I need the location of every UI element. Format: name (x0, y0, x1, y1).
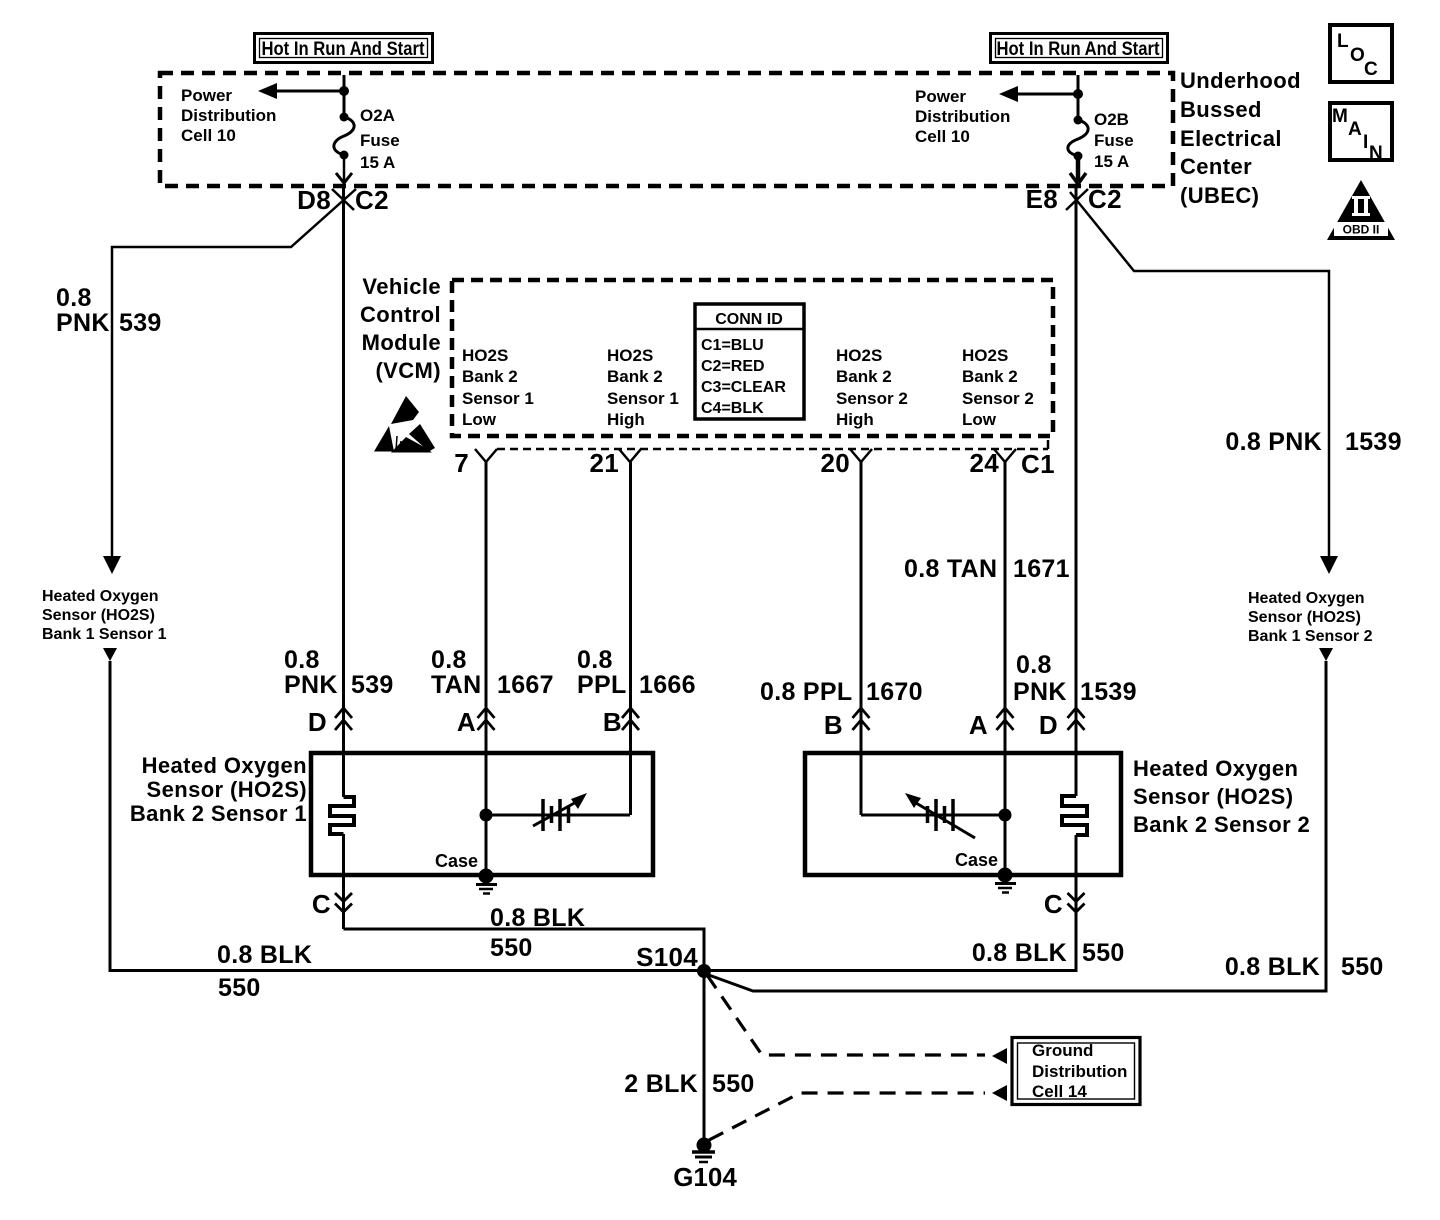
svg-text:HO2S: HO2S (462, 346, 508, 365)
svg-text:Sensor 1: Sensor 1 (462, 389, 534, 408)
svg-text:C3=CLEAR: C3=CLEAR (701, 379, 786, 396)
case ground right (995, 868, 1016, 893)
wire label 0.8 PNK 539 (at sensor D left) (284, 646, 394, 699)
svg-text:M: M (1332, 106, 1348, 127)
svg-text:Cell 10: Cell 10 (181, 126, 236, 145)
dashed reference from S104 to Ground Distribution (707, 975, 1007, 1064)
connector crossing symbol at D8/C2 (332, 189, 354, 210)
connector crossing symbol at E8/C2 (1066, 189, 1088, 210)
svg-text:High: High (836, 410, 874, 429)
svg-text:15 A: 15 A (1094, 152, 1129, 171)
svg-text:Underhood: Underhood (1180, 68, 1301, 93)
text HO2S Bank 2 Sensor 1 Low (462, 346, 534, 429)
ground G104 (673, 1138, 737, 1193)
svg-text:539: 539 (119, 309, 162, 337)
svg-text:Heated Oxygen: Heated Oxygen (1248, 590, 1364, 607)
svg-text:PNK: PNK (1013, 678, 1067, 706)
svg-text:HO2S: HO2S (962, 346, 1008, 365)
pin 7 fork (475, 449, 497, 462)
svg-text:Bank 2: Bank 2 (836, 367, 892, 386)
node junction dot left (339, 86, 349, 96)
connector chevrons C left (335, 893, 352, 912)
svg-text:0.8 PPL: 0.8 PPL (760, 678, 852, 706)
svg-text:D: D (308, 707, 327, 737)
text Heated Oxygen Sensor (HO2S) Bank 2 Sensor 2 (1133, 756, 1310, 837)
svg-text:550: 550 (712, 1070, 755, 1098)
svg-text:HO2S: HO2S (836, 346, 882, 365)
splice S104 (636, 942, 711, 978)
wire label 0.8 PNK 1539 (at sensor D right) (1013, 651, 1137, 706)
wire heater to case exit left (342, 834, 345, 929)
node junction dot A left (480, 809, 493, 822)
svg-text:C2: C2 (355, 185, 389, 215)
svg-text:1666: 1666 (639, 671, 696, 699)
svg-text:C2=RED: C2=RED (701, 358, 765, 375)
svg-text:High: High (607, 410, 645, 429)
svg-text:Heated Oxygen: Heated Oxygen (42, 588, 158, 605)
wire PPL 1666 pin21 to sensor B (left column) (629, 462, 632, 815)
label box Ground Distribution Cell 14 (1012, 1038, 1140, 1105)
svg-text:0.8 TAN: 0.8 TAN (904, 555, 997, 583)
svg-text:1539: 1539 (1080, 678, 1137, 706)
pin 24 fork (994, 449, 1016, 462)
svg-text:Heated Oxygen: Heated Oxygen (142, 753, 307, 778)
svg-text:Module: Module (362, 330, 441, 355)
svg-text:C: C (1044, 889, 1063, 919)
text Heated Oxygen Sensor HO2S Bank 1 Sensor 1 (42, 588, 167, 643)
wire TAN 1671 pin24 to sensor A (right column) (1004, 462, 1007, 874)
heater element left (330, 797, 354, 834)
pin 21 fork (619, 449, 641, 462)
svg-text:B: B (603, 707, 622, 737)
svg-text:Sensor 2: Sensor 2 (836, 389, 908, 408)
wire label 0.8 PNK 539 (upper left) (56, 284, 162, 337)
svg-text:550: 550 (218, 974, 261, 1002)
wire PNK 539 from C2 to sensor D (left column) (342, 186, 345, 797)
svg-text:OBD II: OBD II (1343, 223, 1380, 237)
svg-text:PNK: PNK (284, 671, 338, 699)
variable sense element right (battery with arrow) (861, 793, 1005, 838)
svg-text:550: 550 (1082, 939, 1125, 967)
wire label 0.8 TAN 1671 (904, 555, 1070, 583)
svg-text:C1=BLU: C1=BLU (701, 337, 764, 354)
VCM dashed box (452, 280, 1053, 436)
fuse O2B 15A (1068, 110, 1134, 171)
label box "Hot In Run And Start" right (991, 34, 1168, 63)
connector chevrons B left (622, 708, 639, 730)
svg-text:21: 21 (589, 448, 619, 478)
svg-text:O: O (1350, 45, 1365, 66)
svg-text:C2: C2 (1088, 184, 1122, 214)
fuse O2A 15A (334, 106, 400, 172)
connector chevrons A right (997, 708, 1014, 730)
svg-text:0.8: 0.8 (284, 646, 320, 674)
svg-text:Cell 10: Cell 10 (915, 127, 970, 146)
svg-text:0.8: 0.8 (577, 646, 613, 674)
svg-text:Bank 2: Bank 2 (462, 367, 518, 386)
variable sense element left (battery with arrow) (486, 793, 630, 831)
text Power Distribution Cell 10 (right) (915, 87, 1010, 146)
svg-text:550: 550 (1341, 953, 1384, 981)
wire from Hot In Run box down (left) (343, 75, 346, 117)
VCM connector C1 dashed edge (497, 440, 1048, 449)
wire PNK 1539 branch to HO2S Bank1 Sensor2 (right) (1070, 192, 1338, 574)
svg-text:D8: D8 (297, 185, 331, 215)
svg-text:C: C (312, 889, 331, 919)
wire label 0.8 TAN 1667 (431, 646, 554, 699)
svg-text:O2B: O2B (1094, 110, 1129, 129)
text HO2S Bank 2 Sensor 1 High (607, 346, 679, 429)
text Heated Oxygen Sensor HO2S Bank 1 Sensor 2 (1248, 590, 1373, 645)
dashed box UBEC (Underhood Bussed Electrical Center) (160, 73, 1173, 186)
svg-text:Bank 2 Sensor 2: Bank 2 Sensor 2 (1133, 812, 1310, 837)
svg-text:Distribution: Distribution (915, 107, 1010, 126)
svg-text:Power: Power (915, 87, 966, 106)
svg-text:Sensor (HO2S): Sensor (HO2S) (42, 607, 155, 624)
svg-text:0.8: 0.8 (56, 284, 92, 312)
svg-text:O2A: O2A (360, 106, 395, 125)
svg-text:Case: Case (955, 850, 998, 870)
connector chevrons D left (335, 708, 352, 730)
wire arrow below fuse O2A (336, 155, 352, 183)
text Underhood Bussed Electrical Center (UBEC) (1180, 68, 1301, 208)
svg-text:D: D (1039, 710, 1058, 740)
connector chevrons C right (1068, 893, 1085, 912)
svg-text:Ground: Ground (1032, 1041, 1093, 1060)
svg-text:Low: Low (962, 410, 997, 429)
wire label 0.8 PPL 1670 (760, 678, 923, 706)
svg-text:A: A (457, 707, 476, 737)
wire label 0.8 BLK 550 (right C) (972, 939, 1125, 967)
svg-text:(VCM): (VCM) (375, 358, 441, 383)
text Power Distribution Cell 10 (left) (181, 86, 276, 145)
svg-text:Sensor (HO2S): Sensor (HO2S) (1133, 784, 1293, 809)
svg-text:Fuse: Fuse (1094, 131, 1134, 150)
wire arrow to Power Distribution left (258, 83, 344, 99)
wire BLK 550 main splice run (110, 969, 1076, 972)
svg-text:Sensor (HO2S): Sensor (HO2S) (147, 777, 307, 802)
wire label 2 BLK 550 (624, 1070, 754, 1098)
svg-text:Fuse: Fuse (360, 131, 400, 150)
svg-text:E8: E8 (1026, 184, 1058, 214)
label box "Hot In Run And Start" left (255, 34, 433, 63)
svg-text:Center: Center (1180, 154, 1252, 179)
wire label 0.8 BLK 550 (far left) (217, 941, 312, 1002)
text Heated Oxygen Sensor (HO2S) Bank 2 Sensor 1 (130, 753, 307, 826)
wire PNK 1539 from C2 to sensor D (right column) (1075, 186, 1078, 796)
svg-text:20: 20 (820, 448, 850, 478)
svg-text:Control: Control (360, 302, 441, 327)
case ground left (476, 869, 497, 894)
svg-text:Power: Power (181, 86, 232, 105)
svg-text:Hot In Run And Start: Hot In Run And Start (262, 39, 426, 60)
svg-text:Bank 2 Sensor 1: Bank 2 Sensor 1 (130, 801, 307, 826)
HO2S Bank 2 Sensor 1 box (311, 753, 653, 875)
wire PNK 539 branch to HO2S Bank1 Sensor1 (left) (103, 189, 356, 574)
CONN ID table (695, 304, 804, 419)
connector label D8 C2 (297, 185, 389, 215)
svg-text:Bussed: Bussed (1180, 97, 1262, 122)
svg-text:Sensor 2: Sensor 2 (962, 389, 1034, 408)
svg-text:1539: 1539 (1345, 428, 1402, 456)
svg-text:PPL: PPL (577, 671, 627, 699)
svg-text:0.8 BLK: 0.8 BLK (1225, 953, 1320, 981)
node junction dot right (1073, 89, 1083, 99)
connector chevrons A left (478, 708, 495, 730)
svg-text:0.8 BLK: 0.8 BLK (490, 904, 585, 932)
svg-text:15 A: 15 A (360, 153, 395, 172)
HO2S Bank 2 Sensor 2 box (805, 753, 1121, 875)
svg-text:0.8 BLK: 0.8 BLK (217, 941, 312, 969)
svg-text:1671: 1671 (1013, 555, 1070, 583)
svg-text:7: 7 (454, 448, 469, 478)
ESD sensitive device symbol (374, 396, 435, 453)
icon OBD II triangle (1327, 180, 1395, 240)
text HO2S Bank 2 Sensor 2 Low (962, 346, 1034, 429)
svg-text:C1: C1 (1021, 449, 1055, 479)
svg-text:L: L (1337, 31, 1349, 52)
wire from Hot In Run box down (right) (1077, 75, 1080, 120)
wire label 0.8 PPL 1666 (577, 646, 696, 699)
wire BLK 550 from HO2S Bank1 Sensor1 down-left (103, 648, 704, 971)
connector chevrons D right (1068, 708, 1085, 730)
wire arrow below fuse O2B (1070, 156, 1086, 184)
svg-text:C4=BLK: C4=BLK (701, 400, 764, 417)
svg-text:0.8: 0.8 (1016, 651, 1052, 679)
wire BLK 550 from HO2S Bank1 Sensor2 down-right (706, 648, 1333, 991)
svg-text:2 BLK: 2 BLK (624, 1070, 698, 1098)
svg-text:539: 539 (351, 671, 394, 699)
wire PPL 1670 pin20 to sensor B (right column) (860, 462, 863, 815)
svg-text:TAN: TAN (431, 671, 481, 699)
svg-text:0.8: 0.8 (431, 646, 467, 674)
pin 20 fork (850, 449, 872, 462)
svg-text:Distribution: Distribution (181, 106, 276, 125)
heater element right (1062, 796, 1087, 835)
node junction dot A right (999, 809, 1012, 822)
svg-text:1670: 1670 (866, 678, 923, 706)
svg-text:Bank 2: Bank 2 (962, 367, 1018, 386)
svg-text:A: A (1348, 119, 1362, 140)
svg-text:B: B (824, 710, 843, 740)
icon MAIN (1330, 103, 1392, 164)
svg-text:PNK: PNK (56, 309, 110, 337)
text Vehicle Control Module (VCM) (360, 274, 441, 383)
svg-text:0.8 BLK: 0.8 BLK (972, 939, 1067, 967)
svg-text:N: N (1369, 143, 1383, 164)
wire 2 BLK 550 to ground (703, 971, 706, 1140)
svg-text:Bank 2: Bank 2 (607, 367, 663, 386)
svg-text:Vehicle: Vehicle (362, 274, 441, 299)
svg-text:Case: Case (435, 851, 478, 871)
dashed reference from G104 to Ground Distribution (709, 1085, 1007, 1140)
svg-text:CONN ID: CONN ID (715, 311, 783, 328)
svg-text:I: I (1363, 132, 1368, 153)
wire label 0.8 PNK 1539 (upper right) (1225, 428, 1401, 456)
svg-text:Bank 1 Sensor 2: Bank 1 Sensor 2 (1248, 628, 1373, 645)
wire TAN 1667 pin7 to sensor A (left column) (485, 462, 488, 875)
svg-text:550: 550 (490, 934, 533, 962)
svg-text:HO2S: HO2S (607, 346, 653, 365)
svg-text:C: C (1364, 59, 1378, 80)
svg-text:Distribution: Distribution (1032, 1062, 1127, 1081)
svg-text:24: 24 (969, 448, 999, 478)
icon LOC (1330, 25, 1392, 82)
svg-text:Electrical: Electrical (1180, 126, 1282, 151)
svg-text:Heated Oxygen: Heated Oxygen (1133, 756, 1298, 781)
svg-text:Low: Low (462, 410, 497, 429)
wire label 0.8 BLK 550 (far right) (1225, 953, 1384, 981)
wire heater to case exit right (1075, 835, 1078, 972)
connector chevrons B right (853, 708, 870, 730)
connector label E8 C2 (1026, 184, 1122, 214)
svg-text:Sensor 1: Sensor 1 (607, 389, 679, 408)
wire arrow to Power Distribution right (999, 86, 1078, 102)
svg-text:1667: 1667 (497, 671, 554, 699)
svg-text:0.8 PNK: 0.8 PNK (1225, 428, 1322, 456)
text HO2S Bank 2 Sensor 2 High (836, 346, 908, 429)
svg-text:Cell 14: Cell 14 (1032, 1082, 1087, 1101)
svg-text:(UBEC): (UBEC) (1180, 183, 1259, 208)
svg-text:S104: S104 (636, 942, 698, 972)
svg-text:Sensor (HO2S): Sensor (HO2S) (1248, 609, 1361, 626)
svg-text:Bank 1 Sensor 1: Bank 1 Sensor 1 (42, 626, 167, 643)
wire BLK 550 left C to splice (344, 929, 705, 971)
svg-text:A: A (969, 710, 988, 740)
svg-text:G104: G104 (673, 1162, 737, 1192)
svg-text:Hot In Run And Start: Hot In Run And Start (997, 39, 1161, 60)
wire label 0.8 BLK 550 (mid) (490, 904, 585, 962)
